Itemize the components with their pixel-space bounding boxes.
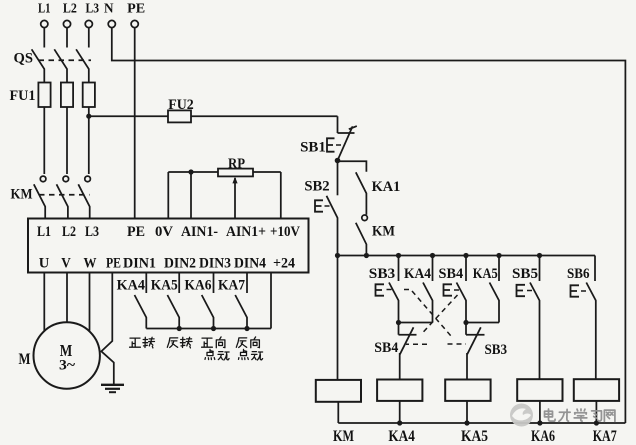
svg-text:AIN1+: AIN1+ [226,223,266,240]
svg-text:SB2: SB2 [304,179,329,195]
svg-text:DIN2: DIN2 [164,254,196,271]
svg-text:SB1: SB1 [300,140,326,156]
svg-text:KA4: KA4 [117,278,146,294]
svg-text:SB3: SB3 [369,266,395,282]
svg-text:SB3: SB3 [485,342,508,358]
svg-text:KA4: KA4 [404,266,432,282]
svg-text:AIN1-: AIN1- [181,223,218,240]
svg-text:FU2: FU2 [168,97,194,113]
svg-text:KM: KM [11,187,33,203]
svg-text:KM: KM [372,224,395,240]
svg-text:SB4: SB4 [439,266,464,282]
svg-text:3~: 3~ [59,358,75,374]
svg-text:PE: PE [127,223,145,240]
svg-text:KA1: KA1 [372,179,401,195]
svg-text:KA5: KA5 [473,266,498,282]
svg-text:+24: +24 [273,254,295,271]
svg-text:L1: L1 [38,1,51,16]
svg-text:KA7: KA7 [593,428,617,445]
svg-text:W: W [84,254,97,271]
svg-text:SB4: SB4 [374,340,398,356]
svg-text:PE: PE [127,1,145,16]
svg-text:L3: L3 [85,223,99,240]
svg-text:+10V: +10V [270,223,300,240]
svg-text:N: N [104,1,114,16]
svg-text:U: U [39,254,50,271]
svg-text:SB5: SB5 [512,266,538,282]
svg-text:SB6: SB6 [567,266,590,282]
svg-text:L2: L2 [62,223,76,240]
svg-text:PE: PE [106,254,121,271]
svg-text:DIN3: DIN3 [199,254,231,271]
svg-text:KA4: KA4 [388,428,414,445]
svg-text:FU1: FU1 [10,88,36,104]
svg-text:KA6: KA6 [185,278,212,294]
svg-text:KM: KM [333,428,354,445]
svg-text:V: V [61,254,71,271]
svg-text:L2: L2 [63,1,77,16]
svg-text:0V: 0V [155,223,173,240]
svg-text:L3: L3 [86,1,100,16]
svg-text:QS: QS [14,51,34,67]
svg-text:M: M [19,351,31,368]
svg-text:L1: L1 [37,223,51,240]
svg-text:KA5: KA5 [151,278,178,294]
svg-text:KA6: KA6 [531,428,555,445]
svg-text:KA7: KA7 [218,278,245,294]
svg-text:RP: RP [228,156,245,172]
svg-text:DIN1: DIN1 [123,254,156,271]
svg-text:KA5: KA5 [461,428,488,445]
svg-text:DIN4: DIN4 [234,254,266,271]
